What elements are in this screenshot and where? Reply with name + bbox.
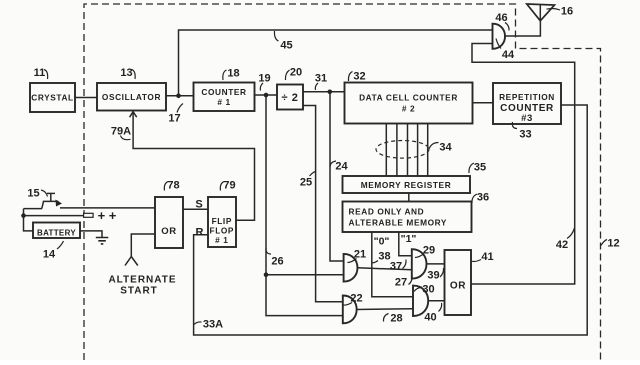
- svg-text:CRYSTAL: CRYSTAL: [31, 92, 73, 102]
- svg-text:46: 46: [495, 12, 507, 24]
- svg-text:78: 78: [167, 180, 179, 192]
- svg-text:#3: #3: [521, 113, 533, 124]
- svg-text:OSCILLATOR: OSCILLATOR: [102, 92, 161, 102]
- svg-text:16: 16: [561, 6, 573, 18]
- svg-text:37: 37: [390, 261, 402, 273]
- svg-text:36: 36: [477, 192, 489, 204]
- svg-text:÷ 2: ÷ 2: [281, 92, 298, 104]
- svg-text:MEMORY REGISTER: MEMORY REGISTER: [361, 180, 452, 190]
- svg-text:# 1: # 1: [215, 235, 228, 245]
- svg-text:R: R: [196, 227, 204, 239]
- svg-text:33A: 33A: [203, 319, 223, 331]
- svg-text:17: 17: [168, 113, 180, 125]
- svg-text:OR: OR: [450, 281, 466, 292]
- svg-text:41: 41: [481, 251, 493, 263]
- svg-text:OR: OR: [161, 226, 176, 237]
- svg-text:13: 13: [120, 67, 132, 79]
- svg-text:DATA CELL COUNTER: DATA CELL COUNTER: [359, 92, 458, 102]
- svg-text:11: 11: [34, 67, 46, 79]
- svg-text:19: 19: [258, 73, 270, 85]
- svg-text:"0": "0": [374, 236, 390, 248]
- svg-text:ALTERNATE: ALTERNATE: [108, 275, 176, 286]
- svg-text:29: 29: [423, 245, 435, 257]
- svg-text:45: 45: [280, 40, 292, 52]
- svg-text:27: 27: [395, 277, 407, 289]
- svg-text:25: 25: [300, 177, 312, 189]
- svg-text:START: START: [120, 286, 158, 297]
- svg-text:34: 34: [439, 142, 452, 154]
- svg-text:44: 44: [502, 49, 515, 61]
- svg-text:30: 30: [422, 284, 434, 296]
- svg-text:28: 28: [390, 313, 402, 325]
- svg-text:31: 31: [315, 73, 327, 85]
- svg-text:38: 38: [378, 251, 390, 263]
- svg-text:+ +: + +: [98, 208, 117, 223]
- svg-text:14: 14: [43, 249, 56, 261]
- svg-text:33: 33: [519, 129, 531, 141]
- svg-text:# 1: # 1: [217, 97, 230, 107]
- svg-text:ALTERABLE MEMORY: ALTERABLE MEMORY: [349, 218, 448, 228]
- svg-text:24: 24: [335, 161, 348, 173]
- svg-text:79: 79: [223, 180, 235, 192]
- svg-text:42: 42: [556, 239, 568, 251]
- svg-text:S: S: [195, 199, 202, 211]
- svg-text:18: 18: [227, 68, 239, 80]
- svg-text:FLIP: FLIP: [212, 216, 232, 226]
- svg-text:"1": "1": [401, 233, 417, 245]
- svg-text:# 2: # 2: [402, 104, 415, 114]
- svg-text:32: 32: [353, 71, 365, 83]
- svg-text:BATTERY: BATTERY: [37, 229, 76, 238]
- svg-text:READ ONLY AND: READ ONLY AND: [349, 207, 425, 217]
- svg-text:12: 12: [607, 238, 619, 250]
- svg-text:COUNTER: COUNTER: [201, 87, 246, 97]
- svg-text:22: 22: [350, 293, 362, 305]
- svg-text:FLOP: FLOP: [210, 226, 235, 236]
- svg-text:20: 20: [290, 67, 302, 79]
- svg-text:26: 26: [271, 256, 283, 268]
- svg-text:39: 39: [427, 270, 439, 282]
- svg-text:15: 15: [27, 188, 39, 200]
- svg-text:40: 40: [424, 312, 436, 324]
- svg-text:REPETITION: REPETITION: [499, 92, 555, 102]
- svg-text:35: 35: [474, 162, 486, 174]
